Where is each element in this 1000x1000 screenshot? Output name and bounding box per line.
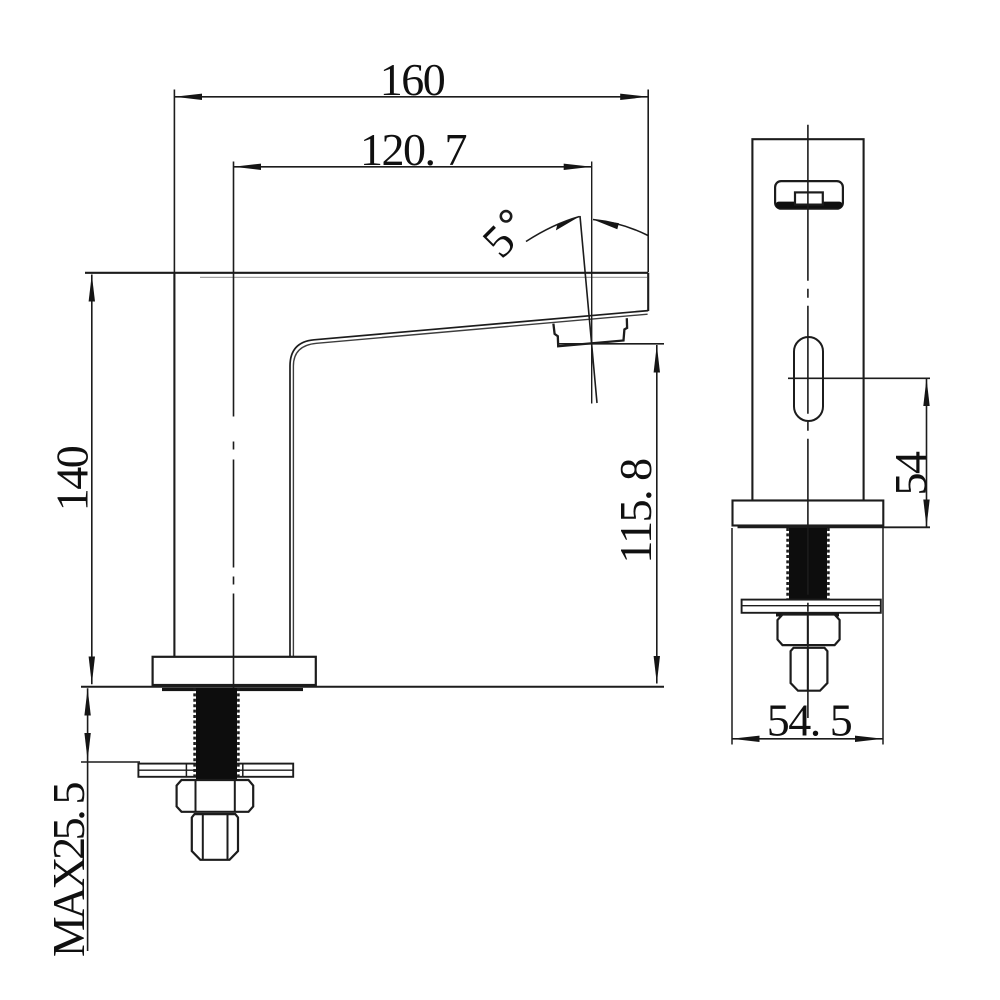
svg-text:120. 7: 120. 7 [360,124,467,175]
svg-text:140: 140 [47,446,98,511]
svg-text:160: 160 [380,54,445,105]
svg-text:54. 5: 54. 5 [767,695,852,746]
svg-text:54: 54 [885,451,936,496]
svg-text:115. 8: 115. 8 [610,459,661,564]
svg-text:MAX25. 5: MAX25. 5 [43,783,94,958]
